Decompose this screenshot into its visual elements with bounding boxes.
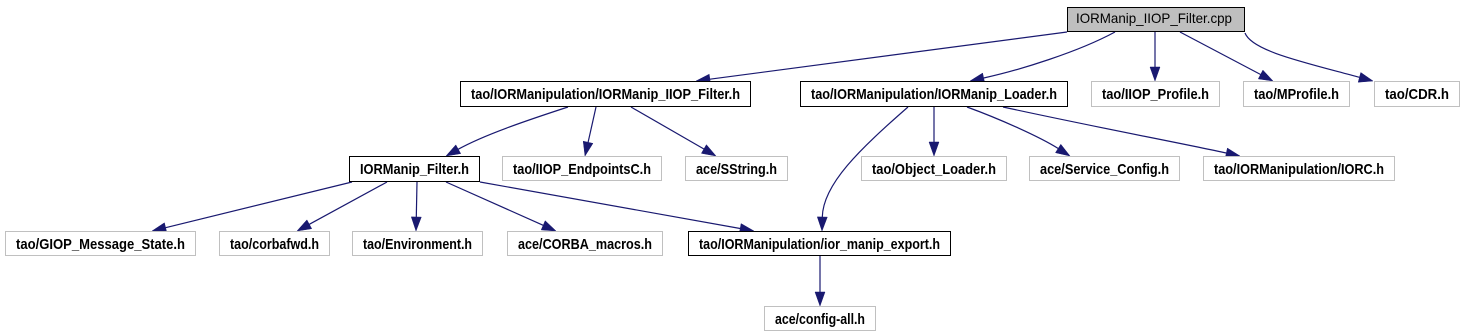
node tao/Object_Loader.h xyxy=(862,157,1007,181)
edge root->B xyxy=(970,32,1115,83)
svg-text:tao/Environment.h: tao/Environment.h xyxy=(363,236,472,253)
edge F->M xyxy=(297,182,387,231)
svg-text:tao/corbafwd.h: tao/corbafwd.h xyxy=(230,236,319,253)
svg-text:IORManip_Filter.h: IORManip_Filter.h xyxy=(360,161,469,178)
svg-text:ace/CORBA_macros.h: ace/CORBA_macros.h xyxy=(518,236,652,253)
svg-text:tao/IORManipulation/IORManip_I: tao/IORManipulation/IORManip_IIOP_Filter… xyxy=(471,86,740,103)
edge root->E xyxy=(1245,33,1373,82)
svg-text:tao/IIOP_Profile.h: tao/IIOP_Profile.h xyxy=(1102,86,1209,103)
node tao/CDR.h xyxy=(1375,82,1460,107)
node tao/IORManipulation/ior_manip_export.h xyxy=(689,232,951,256)
node tao/IORManipulation/IORC.h xyxy=(1204,157,1395,181)
node tao/IIOP_Profile.h xyxy=(1092,82,1220,107)
svg-text:tao/Object_Loader.h: tao/Object_Loader.h xyxy=(872,161,996,178)
svg-text:tao/IIOP_EndpointsC.h: tao/IIOP_EndpointsC.h xyxy=(513,161,651,178)
edge B->J xyxy=(967,107,1070,156)
node IORManip_Filter.h xyxy=(350,157,480,182)
node tao/corbafwd.h xyxy=(220,232,330,256)
node ace/CORBA_macros.h xyxy=(508,232,663,256)
svg-text:ace/config-all.h: ace/config-all.h xyxy=(775,311,865,328)
edge B->K xyxy=(1003,107,1240,158)
svg-text:IORManip_IIOP_Filter.cpp: IORManip_IIOP_Filter.cpp xyxy=(1076,10,1232,26)
edge B->P xyxy=(817,107,908,231)
node tao/IORManipulation/IORManip_Loader.h xyxy=(801,82,1068,107)
svg-text:tao/CDR.h: tao/CDR.h xyxy=(1385,86,1449,103)
edge F->P xyxy=(480,182,754,234)
edge B->I xyxy=(929,107,939,156)
node tao/GIOP_Message_State.h xyxy=(6,232,196,256)
svg-text:ace/SString.h: ace/SString.h xyxy=(696,161,777,178)
node ace/config-all.h xyxy=(765,307,876,331)
edge root->A xyxy=(696,32,1067,84)
node IORManip_IIOP_Filter.cpp xyxy=(1068,8,1245,32)
svg-text:tao/IORManipulation/IORManip_L: tao/IORManipulation/IORManip_Loader.h xyxy=(811,86,1057,103)
svg-text:tao/MProfile.h: tao/MProfile.h xyxy=(1254,86,1339,103)
node tao/IORManipulation/IORManip_IIOP_Filter.h xyxy=(461,82,751,107)
edge F->L xyxy=(152,182,352,233)
edge P->Q xyxy=(815,256,825,306)
svg-text:tao/GIOP_Message_State.h: tao/GIOP_Message_State.h xyxy=(16,236,185,253)
edge F->N xyxy=(411,182,421,231)
node ace/SString.h xyxy=(686,157,788,181)
svg-text:tao/IORManipulation/IORC.h: tao/IORManipulation/IORC.h xyxy=(1214,161,1384,178)
node tao/Environment.h xyxy=(353,232,483,256)
node tao/MProfile.h xyxy=(1244,82,1350,107)
edge root->D xyxy=(1180,32,1273,81)
edge root->C xyxy=(1150,32,1160,81)
node ace/Service_Config.h xyxy=(1030,157,1180,181)
edge A->H xyxy=(631,107,716,156)
svg-text:tao/IORManipulation/ior_manip_: tao/IORManipulation/ior_manip_export.h xyxy=(699,236,940,253)
edge F->O xyxy=(446,182,556,231)
edge A->F xyxy=(446,107,568,156)
node tao/IIOP_EndpointsC.h xyxy=(503,157,662,181)
edge A->G xyxy=(583,107,596,156)
svg-text:ace/Service_Config.h: ace/Service_Config.h xyxy=(1040,161,1169,178)
